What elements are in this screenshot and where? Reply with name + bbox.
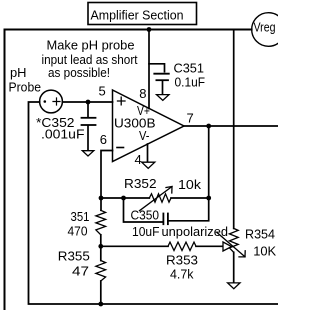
svg-text:C350: C350	[131, 208, 160, 223]
svg-text:Amplifier Section: Amplifier Section	[91, 8, 184, 23]
svg-text:R353: R353	[166, 253, 198, 268]
svg-text:Make pH probe: Make pH probe	[47, 38, 135, 53]
svg-text:10uF: 10uF	[132, 224, 160, 239]
svg-text:Probe: Probe	[9, 80, 42, 95]
svg-text:10K: 10K	[253, 243, 276, 258]
svg-text:U300B: U300B	[114, 116, 156, 131]
svg-text:R354: R354	[245, 227, 275, 242]
svg-text:5: 5	[99, 84, 106, 99]
svg-text:470: 470	[68, 224, 88, 239]
svg-text:R355: R355	[58, 248, 90, 263]
svg-text:R352: R352	[124, 176, 157, 191]
svg-text:unpolarized: unpolarized	[162, 224, 229, 239]
svg-text:C351: C351	[174, 61, 205, 76]
svg-text:as possible!: as possible!	[48, 65, 110, 80]
svg-text:8: 8	[139, 86, 146, 101]
svg-text:351: 351	[71, 209, 90, 224]
svg-text:4: 4	[135, 152, 142, 167]
svg-text:4.7k: 4.7k	[170, 267, 194, 282]
svg-text:0.1uF: 0.1uF	[175, 75, 206, 90]
svg-text:Vreg: Vreg	[254, 20, 276, 35]
svg-text:10k: 10k	[178, 177, 202, 192]
svg-text:7: 7	[187, 111, 194, 126]
svg-text:47: 47	[72, 264, 89, 279]
svg-text:6: 6	[100, 132, 107, 147]
svg-text:pH: pH	[10, 65, 27, 80]
svg-text:.001uF: .001uF	[41, 127, 85, 142]
